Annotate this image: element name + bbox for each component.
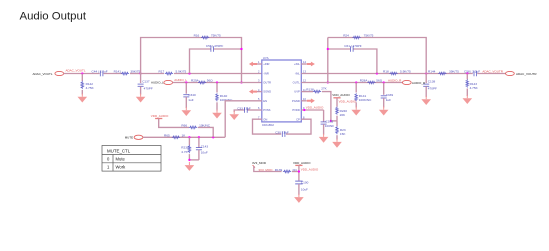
node R143 (466, 72, 468, 74)
table MUTE_CTL (102, 146, 161, 172)
svg-text:ADAC_VOUTR: ADAC_VOUTR (482, 69, 503, 73)
ground under R140 (212, 110, 222, 119)
svg-text:PVSS: PVSS (263, 108, 270, 112)
capacitor C339 1uF shunt (383, 83, 385, 95)
node R23A (188, 136, 190, 138)
svg-text:PVDD: PVDD (292, 108, 300, 112)
wire main R: pin13 to C58 (301, 73, 473, 75)
node R66 (212, 136, 214, 138)
svg-text:R29A: R29A (191, 79, 200, 83)
svg-text:R16: R16 (194, 34, 200, 38)
resistor R144 39K/75 series main R (438, 72, 446, 75)
resistor R66 10K/NC series (189, 126, 197, 128)
svg-text:OUTL: OUTL (293, 81, 301, 85)
svg-text:10uF: 10uF (201, 150, 208, 154)
svg-text:2: 2 (258, 69, 260, 73)
svg-text:DRI-8D2: DRI-8D2 (262, 123, 274, 127)
svg-text:+INR: +INR (263, 62, 269, 66)
svg-text:C30 | 1uF: C30 | 1uF (275, 130, 289, 134)
resistor R141B 100K/NC shunt (355, 83, 357, 93)
pin 14 +INL (301, 63, 306, 65)
wire node A to R17 (141, 73, 164, 75)
wire OUTR: oval to IC pin3 (173, 82, 262, 84)
svg-text:R144: R144 (428, 70, 436, 74)
node shared vertical on OUTL (327, 81, 329, 83)
svg-text:R139: R139 (275, 168, 283, 172)
svg-text:75K/75: 75K/75 (364, 34, 374, 38)
svg-text:C56 | 470PF: C56 | 470PF (206, 44, 223, 48)
capacitor C138 470PF shunt at node outer R (425, 74, 427, 84)
resistor R17 5.9K/75 series (165, 72, 173, 75)
svg-text:VDD_AUDIO: VDD_AUDIO (339, 100, 357, 104)
feedback inner loop L with capacitor C56 470PF (190, 49, 211, 74)
wire joining R23A and C143 bottoms (189, 159, 199, 161)
svg-text:100K/NC: 100K/NC (359, 98, 372, 102)
svg-text:R141: R141 (114, 70, 122, 74)
svg-text:ADAC_VOUTR: ADAC_VOUTR (516, 72, 537, 76)
svg-text:ADAC_VOUTL: ADAC_VOUTL (32, 72, 52, 76)
svg-text:Mute: Mute (116, 156, 126, 161)
svg-text:C10B: C10B (325, 119, 333, 123)
svg-text:0: 0 (107, 156, 110, 161)
svg-text:C143: C143 (201, 144, 209, 148)
svg-text:R18: R18 (383, 70, 389, 74)
svg-text:4.7K: 4.7K (181, 150, 188, 154)
wire R139 to VDD node (292, 171, 299, 173)
capacitor C44 2.2uF series (100, 71, 103, 77)
svg-text:39K/75: 39K/75 (449, 70, 459, 74)
node feedback to OUTR wire (240, 81, 242, 83)
svg-text:AUDIO_R: AUDIO_R (412, 81, 426, 85)
resistor R143 4.75K shunt (466, 74, 468, 80)
svg-text:AUDIO_L: AUDIO_L (174, 78, 187, 82)
svg-text:470PF: 470PF (428, 87, 437, 91)
svg-text:PGND: PGND (292, 99, 300, 103)
svg-text:56Ω: 56Ω (376, 79, 382, 83)
wire R17 to IC pin2 (174, 73, 262, 75)
resistor R29A 56 series on OUTR (198, 81, 206, 84)
svg-text:13: 13 (303, 69, 306, 73)
pin 10 PGND (301, 100, 306, 102)
resistor R65 1K series (172, 136, 180, 139)
node inner loop R (376, 72, 378, 74)
resistor R18 5.9K/75 series main R (389, 72, 397, 75)
ground under C138 (421, 96, 431, 105)
svg-text:C138: C138 (428, 80, 436, 84)
svg-text:Work: Work (116, 165, 127, 170)
pin 1 +INR (257, 63, 262, 65)
wire C44 to R141 (104, 73, 123, 75)
svg-text:56Ω: 56Ω (207, 79, 213, 83)
resistor R138 27K on UVP pin11 (301, 91, 313, 93)
svg-text:R66: R66 (181, 124, 187, 128)
svg-text:4.75K: 4.75K (86, 86, 95, 90)
ground under R143 (463, 95, 473, 104)
capacitor C30 1uF series in pump loop (282, 131, 285, 137)
svg-text:U7A: U7A (263, 56, 269, 60)
svg-text:EN: EN (263, 99, 267, 103)
svg-text:VDD_AUDIO: VDD_AUDIO (306, 105, 324, 109)
node C340 (185, 81, 187, 83)
wire R141 to node A (130, 73, 141, 75)
capacitor C340 1uF shunt (185, 83, 187, 94)
resistor R140 100K/NC shunt (216, 83, 218, 93)
resistor R23A 4.7K shunt (188, 137, 190, 145)
svg-text:1: 1 (107, 165, 110, 170)
svg-text:R138: R138 (306, 88, 314, 92)
svg-text:ADAC_VOUTL: ADAC_VOUTL (66, 69, 86, 73)
svg-text:C33 | 1uF: C33 | 1uF (237, 107, 251, 111)
svg-text:-INL: -INL (295, 71, 301, 75)
svg-text:470PF: 470PF (144, 87, 153, 91)
resistor R240 20K (336, 107, 339, 115)
wire MUTE to riser (143, 136, 222, 138)
ground under R141B (351, 107, 361, 116)
node R141B (355, 81, 357, 83)
svg-text:10uF: 10uF (301, 188, 308, 192)
svg-text:MUTE: MUTE (125, 136, 134, 140)
svg-text:MUTE_CTL: MUTE_CTL (107, 149, 131, 154)
connector AUDIO_R (402, 80, 411, 84)
svg-text:+INL: +INL (294, 62, 300, 66)
pin 4 SGND (257, 91, 262, 93)
node C143 (198, 136, 200, 138)
capacitor C58 2.2uF series (474, 71, 477, 77)
svg-text:VDD_AUDIO: VDD_AUDIO (332, 93, 350, 97)
resistor R141 39K/75 series (121, 72, 129, 75)
svg-text:75K/75: 75K/75 (211, 34, 221, 38)
svg-text:R24: R24 (343, 34, 349, 38)
svg-text:3V3_MOD: 3V3_MOD (252, 161, 267, 165)
svg-text:Audio Output: Audio Output (20, 11, 87, 23)
wire 3V3_MOD to node (254, 166, 282, 172)
resistor R28A 56 series on OUTL (367, 81, 375, 84)
wire C58 to oval (477, 73, 505, 75)
svg-text:VDD_AUDIO: VDD_AUDIO (301, 168, 319, 172)
wire OUTL: pin12 to oval (301, 82, 402, 84)
svg-text:-INR: -INR (263, 71, 269, 75)
resistor R139 0 series (283, 170, 291, 173)
node inner loop R on shared vertical (327, 48, 329, 50)
feedback outer loop R with resistor R24 75K/75 (328, 38, 426, 74)
connector ADAC_VOUTR (506, 71, 515, 75)
wire main L: oval to C44 (64, 73, 100, 75)
svg-text:R65: R65 (164, 133, 170, 137)
ground under C340 (182, 107, 192, 116)
capacitor C100 10uF shunt (295, 181, 302, 184)
svg-text:1uF: 1uF (188, 98, 193, 102)
svg-text:15K: 15K (340, 132, 346, 136)
op-amp U7A box (262, 60, 302, 122)
svg-text:AUDIO_L: AUDIO_L (151, 81, 164, 85)
node B junction (188, 72, 190, 74)
svg-text:C100: C100 (301, 181, 309, 185)
svg-text:1uF: 1uF (386, 98, 391, 102)
node A junction (139, 72, 141, 74)
svg-text:C137: C137 (142, 80, 150, 84)
svg-text:R17: R17 (159, 70, 165, 74)
capacitor C143 10uF shunt (198, 137, 200, 147)
ground under C339 (379, 107, 389, 116)
svg-text:VDD_AUDIO: VDD_AUDIO (151, 114, 169, 118)
ground under mute filter (185, 162, 195, 171)
svg-text:R23A: R23A (181, 145, 190, 149)
feedback outer loop L with resistor R16 75K/75 (141, 38, 242, 83)
ground under R142 (78, 94, 88, 103)
svg-text:C340: C340 (188, 93, 196, 97)
svg-text:20K: 20K (340, 113, 346, 117)
wire EN pin5 from mute riser (225, 101, 262, 137)
svg-text:R28A: R28A (360, 79, 369, 83)
wire ON pin7 loop to CP pin8 (253, 119, 282, 134)
svg-text:4.75K: 4.75K (470, 86, 479, 90)
svg-text:VDD_AUDIO: VDD_AUDIO (293, 161, 311, 165)
svg-text:SGND: SGND (263, 90, 271, 94)
ground under C33 (229, 111, 239, 120)
ground under C100 (294, 194, 304, 203)
feedback inner loop R with capacitor C61 470PF (328, 48, 351, 50)
ground under C10B (319, 134, 329, 143)
node outer loop R (425, 72, 427, 74)
wire R66 to mute wire (198, 127, 213, 137)
node C339 (383, 81, 385, 83)
node inner loop joins outer vertical (240, 48, 242, 50)
svg-text:C61 | 470PF: C61 | 470PF (344, 44, 361, 48)
resistor R142 4.75K shunt (81, 74, 83, 82)
node main/R142 (81, 72, 83, 74)
node R140 (216, 81, 218, 83)
resistor R23 15K (336, 121, 338, 126)
ground under C137 (136, 94, 146, 103)
ground under R23 (332, 139, 342, 148)
svg-text:AUDIO_R: AUDIO_R (388, 78, 402, 82)
svg-text:100NF: 100NF (325, 124, 334, 128)
node UVP divider (330, 120, 332, 122)
svg-text:27K: 27K (321, 86, 327, 90)
svg-text:5.9K/75: 5.9K/75 (400, 70, 411, 74)
svg-text:CP: CP (296, 117, 300, 121)
node VDD bottom (298, 170, 300, 172)
capacitor C33 1uF on PVSS (234, 110, 244, 112)
wire UVP to divider node (322, 92, 331, 121)
svg-text:UVP: UVP (294, 90, 300, 94)
feedback shared vertical R to OUTL (327, 38, 329, 83)
svg-text:ON: ON (263, 117, 267, 121)
svg-text:C339: C339 (386, 93, 394, 97)
capacitor C10B 100NF on PVDD (301, 109, 323, 111)
svg-text:OUTR: OUTR (263, 81, 271, 85)
capacitor C137 470PF shunt at node A (140, 74, 142, 84)
